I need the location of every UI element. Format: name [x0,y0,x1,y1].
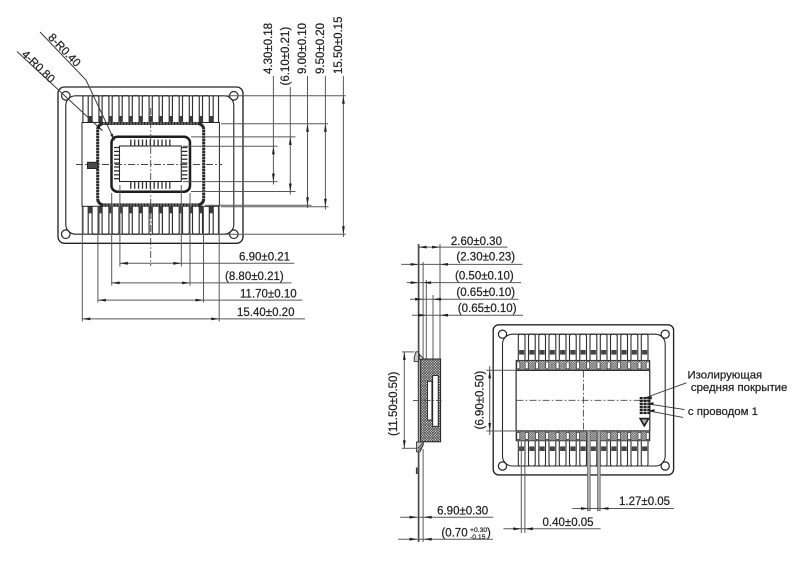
sideview hatched body [421,359,441,442]
svg-text:11.70±0.10: 11.70±0.10 [240,289,297,301]
svg-text:(6.10±0.21): (6.10±0.21) [280,27,292,86]
callout leader to pads lower [649,411,684,418]
view1 cavity window [120,146,182,182]
label 8-R0.40 leader [40,32,115,141]
view1 corner hole bottom-left [62,230,71,239]
view1 corner hole top-right [230,92,239,101]
dimension (0.70) line [398,538,493,540]
view2 pulled-down pin right [598,431,601,511]
callout leader to pads upper [646,383,687,398]
dimension (0.65±0.10) upper line [410,298,519,300]
view2 corner hole top-left [498,330,506,338]
svg-text:(11.50±0.50): (11.50±0.50) [388,372,400,436]
svg-text:(0.65±0.10): (0.65±0.10) [458,303,517,315]
view1 top row contact pins in gaps [88,116,213,123]
svg-text:(0.65±0.10): (0.65±0.10) [456,287,515,299]
sideview body recess column [433,376,439,427]
view1 extension lines bottom [81,207,83,322]
sideview top leg [419,354,422,359]
svg-text:(2.30±0.23): (2.30±0.23) [456,251,515,263]
view1 bottom row contact pins in gaps [88,206,213,213]
svg-text:Изолирующая: Изолирующая [688,369,763,381]
view2 corner hole bottom-right [661,462,669,470]
view1 top lead row [83,96,219,123]
svg-text:9.50±0.20: 9.50±0.20 [315,23,327,74]
view2 corner hole bottom-left [498,462,506,470]
sideview body inner slot [428,381,432,420]
sideview ext line L4 [432,295,434,360]
svg-text:9.00±0.10: 9.00±0.10 [297,23,309,74]
dimension (11.50±0.50) line [403,352,405,448]
svg-text:): ) [487,528,491,540]
dimension (11.50±0.50) ext lines [402,351,414,353]
view2 vertical centerline [582,371,584,431]
svg-text:15.50±0.15: 15.50±0.15 [333,17,345,74]
view2 top contact strip [516,360,650,370]
dimension (6.90±0.50) line [489,366,491,435]
view1 horizontal centerline [76,164,222,166]
view1 extension lines right side [226,95,346,97]
sideview ext line L2 lower [422,449,424,542]
svg-text:15.40±0.20: 15.40±0.20 [237,307,294,319]
view2 pin1 triangle marker [640,419,648,426]
view1 pin1 tab [88,162,98,168]
svg-text:+0.30: +0.30 [470,527,487,534]
dimension 6.90±0.21 line [120,262,294,264]
view1 cavity frame [112,137,191,192]
sideview main face line [418,244,420,542]
svg-text:с проводом 1: с проводом 1 [688,406,758,418]
dimension (6.90±0.50) ext lines [486,369,516,371]
dimension (2.30±0.23) line [401,263,522,265]
view2 bottom lead row [518,441,648,466]
view2 bottom contact strip [516,431,650,441]
svg-text:1.27±0.05: 1.27±0.05 [619,496,670,508]
view2 outer frame [493,325,673,475]
view2 insulation pad grid [640,397,651,414]
view1 flange outline [82,123,219,207]
view1 corner hole top-left [62,92,71,101]
dimension 2.60±0.30 line [419,246,508,248]
svg-text:(8.80±0.21): (8.80±0.21) [225,271,284,283]
view2 top lead crossbars [519,350,647,355]
dimension 15.40±0.20 line [82,318,305,320]
svg-text:0.40±0.05: 0.40±0.05 [543,517,594,529]
sideview centerline [413,399,442,401]
dimension (0.70) text with tolerances [441,527,491,541]
dimension 11.70±0.10 line [98,299,302,301]
view1 body striped edge band [98,124,204,205]
svg-text:(0.70: (0.70 [441,528,467,540]
callout leader to pads middle [648,404,685,410]
dimension (8.80±0.21) line [112,282,292,284]
view2 top lead row [518,334,648,360]
dimension 0.40±0.05 ext lines [520,442,522,534]
sideview bottom flange tab [417,442,424,452]
dimension (6.10±0.21) line [289,87,291,195]
svg-text:6.90±0.21: 6.90±0.21 [239,252,290,264]
view2 bottom lead crossbars [519,446,647,451]
dimension 6.90±0.30 line [400,516,493,518]
view2 corner hole top-right [661,330,669,338]
view1 bottom lead row [83,206,219,234]
svg-text:2.60±0.30: 2.60±0.30 [451,236,502,248]
dimension 1.27±0.05 line [572,508,674,510]
svg-text:6.90±0.30: 6.90±0.30 [437,506,488,518]
view1 outer frame [58,87,243,243]
view1 corner hole bottom-right [230,230,239,239]
dimension 4.30±0.18 line [272,76,274,185]
dimension (0.50±0.10) line [407,282,521,284]
view2 horizontal centerline [517,399,651,401]
view2 inner frame contour with corner bulges [503,334,666,466]
sideview small dash mark [416,468,418,475]
label 4-R0.80 leader [17,52,103,131]
svg-text:4.30±0.18: 4.30±0.18 [263,23,275,74]
dimension 9.00±0.10 line [307,76,309,208]
svg-text:(0.50±0.10): (0.50±0.10) [455,271,514,283]
sideview ext line L3 [425,280,427,360]
svg-text:средняя покрытие: средняя покрытие [691,382,787,394]
dimension 15.50±0.15 line [342,76,344,237]
sideview top flange tab [414,352,418,362]
svg-text:(6.90±0.50): (6.90±0.50) [475,371,487,430]
view1 inner frame contour with corner bulges [66,96,234,234]
view2 body outline [516,370,650,431]
view1 vertical centerline [150,108,152,266]
view1 cavity contact ticks [114,140,187,189]
svg-text:-0.15: -0.15 [470,534,486,541]
view2 pulled-down pin left [588,431,591,511]
sideview right face line L5 [439,244,441,360]
dimension (0.65±0.10) lower line [412,314,523,316]
sideview ext line L2 upper [422,262,424,360]
dimension 9.50±0.20 line [324,76,326,210]
sideview bottom leg chevron [418,443,423,448]
dimension 0.40±0.05 line [504,528,601,530]
